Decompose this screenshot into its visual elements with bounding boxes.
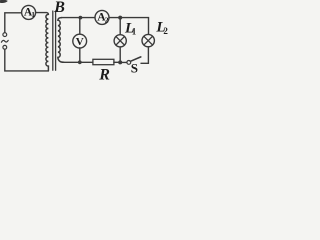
ammeter A1: [22, 5, 36, 19]
resistor R: [93, 59, 114, 64]
label A1 of ammeter: [24, 7, 35, 19]
wire: node to switch pivot: [120, 61, 127, 63]
wire: secondary bottom to resistor: [64, 61, 93, 63]
transformer core line 2: [55, 11, 57, 70]
node: voltmeter bottom junction: [78, 60, 82, 64]
node: lamp L1 top junction: [118, 16, 122, 20]
switch S pivot: [127, 61, 131, 65]
voltmeter V: [73, 34, 87, 48]
node: lamp L1 bottom junction: [118, 60, 122, 64]
lamp L1 cross: [116, 37, 124, 45]
ammeter A2: [95, 10, 109, 24]
svg-text:V: V: [76, 36, 84, 48]
svg-text:B: B: [53, 0, 65, 16]
transformer core line 1: [52, 11, 54, 70]
ac source tilde symbol: [1, 40, 8, 42]
svg-text:1: 1: [132, 26, 137, 36]
label L2 of lamp: [155, 20, 168, 36]
svg-text:1: 1: [31, 10, 35, 19]
wire: lamp L1 top lead: [119, 18, 121, 35]
label L1 of lamp: [124, 20, 137, 36]
wire: secondary top to ammeter A2: [62, 17, 96, 19]
transformer B secondary coil: [58, 18, 64, 63]
ac source top terminal: [3, 33, 7, 37]
wire: voltmeter bottom lead: [79, 48, 81, 62]
lamp L2 cross: [144, 36, 153, 45]
lamp L2: [142, 34, 154, 46]
wire: ammeter A1 to primary coil top: [36, 13, 49, 15]
wire: lamp L2 bottom lead to switch contact: [141, 47, 148, 64]
wire: source top lead up and right to ammeter A1: [5, 13, 22, 33]
transformer B primary coil: [46, 14, 49, 71]
ac source bottom terminal: [3, 45, 7, 49]
wire: ammeter A2 to lamp branches: [109, 18, 149, 35]
switch S blade: [130, 57, 140, 61]
wire: lamp L1 bottom lead: [119, 47, 121, 63]
svg-text:R: R: [98, 66, 110, 83]
svg-text:2: 2: [163, 26, 168, 36]
lamp L1: [114, 35, 126, 47]
wire: source bottom lead down and right to transformer primary bottom: [5, 49, 49, 71]
svg-text:S: S: [131, 61, 138, 76]
stray mark top-left corner: [0, 0, 8, 3]
node: voltmeter top junction: [79, 16, 83, 20]
wire: resistor to node: [114, 61, 120, 63]
svg-text:2: 2: [105, 15, 109, 24]
wire: voltmeter top lead: [79, 18, 81, 35]
label A2 of ammeter: [97, 12, 109, 25]
